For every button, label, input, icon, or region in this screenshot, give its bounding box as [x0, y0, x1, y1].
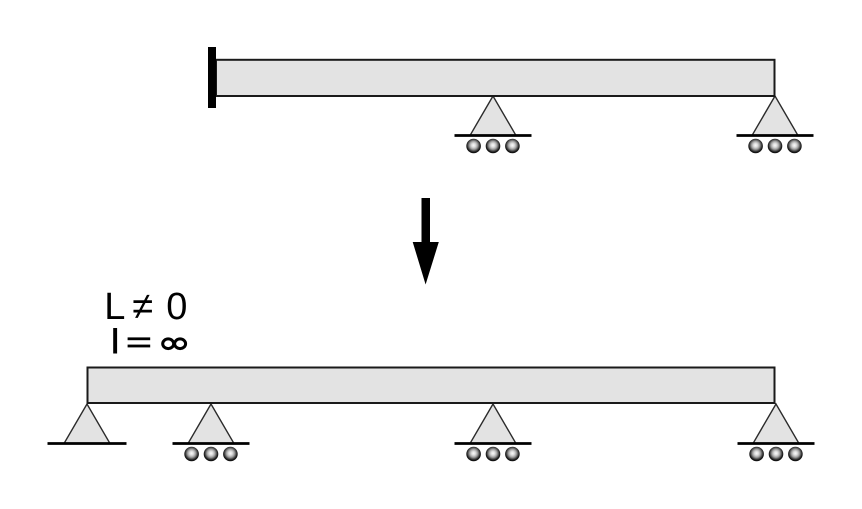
svg-text:L≠0: L≠0 [104, 286, 187, 328]
